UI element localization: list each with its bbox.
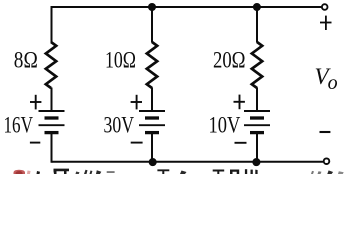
caption char stroke 4 [96, 170, 101, 174]
wire branch 1 top stub [51, 6, 53, 43]
wire branch 3 middle stub [256, 88, 258, 112]
wire top bus [52, 6, 322, 8]
caption char stroke 6 [180, 171, 187, 175]
node A junction dot top branch 2 [148, 3, 156, 11]
caption char stroke 7 T-shape [213, 170, 225, 175]
output minus sign [320, 131, 331, 133]
svg-text:8Ω: 8Ω [14, 48, 38, 73]
caption char stroke 1 [37, 171, 41, 174]
caption char stroke 11 [327, 170, 333, 174]
wire branch 1 bottom stub [51, 133, 53, 163]
wire branch 2 top stub [151, 7, 153, 43]
resistor R2 10ohm [147, 42, 157, 88]
wire bottom bus [52, 161, 324, 163]
battery V2 minus sign [131, 142, 143, 144]
caption char stroke 10 faint [311, 171, 314, 174]
node D junction dot bottom branch 3 [252, 158, 260, 166]
terminal bottom-right open circle [324, 158, 330, 164]
battery V2 30V [139, 111, 165, 133]
caption red circled mark [14, 170, 26, 174]
output plus sign [320, 16, 332, 30]
node B junction dot bottom branch 2 [149, 158, 157, 166]
svg-text:Vo: Vo [315, 64, 338, 94]
battery V3 10V [244, 111, 270, 133]
node C junction dot top branch 3 [253, 3, 261, 11]
battery V3 minus sign [235, 142, 247, 144]
wire branch 2 bottom stub [151, 133, 153, 162]
battery V1 minus sign [30, 142, 40, 144]
svg-text:10V: 10V [209, 113, 241, 138]
battery V1 16V [39, 111, 65, 133]
caption char stroke 12 faint [338, 171, 344, 174]
wire branch 2 middle stub [151, 88, 153, 112]
resistor R3 20ohm [252, 42, 262, 88]
caption char stroke 5 T-shape [157, 169, 169, 174]
svg-text:30V: 30V [104, 113, 135, 138]
battery V2 plus sign [131, 95, 142, 110]
svg-text:20Ω: 20Ω [213, 48, 246, 73]
caption cut-off text row [14, 169, 344, 174]
caption char stroke 2 block [54, 169, 70, 174]
caption char stroke 2b [76, 172, 80, 175]
svg-text:16V: 16V [4, 113, 34, 138]
caption char stroke 9 verticals [245, 169, 247, 174]
terminal top-right open circle [322, 4, 328, 10]
resistor R1 8ohm [46, 42, 56, 88]
wire branch 3 bottom stub [256, 133, 258, 162]
caption char stroke 4b gray bar [107, 171, 115, 173]
battery V1 plus sign [30, 95, 41, 110]
svg-text:10Ω: 10Ω [105, 48, 136, 73]
caption char stroke 3 [84, 170, 88, 174]
battery V3 plus sign [234, 95, 245, 110]
wire branch 1 middle stub [51, 88, 53, 112]
caption char stroke 8 block [230, 170, 239, 175]
wire branch 3 top stub [256, 7, 258, 43]
